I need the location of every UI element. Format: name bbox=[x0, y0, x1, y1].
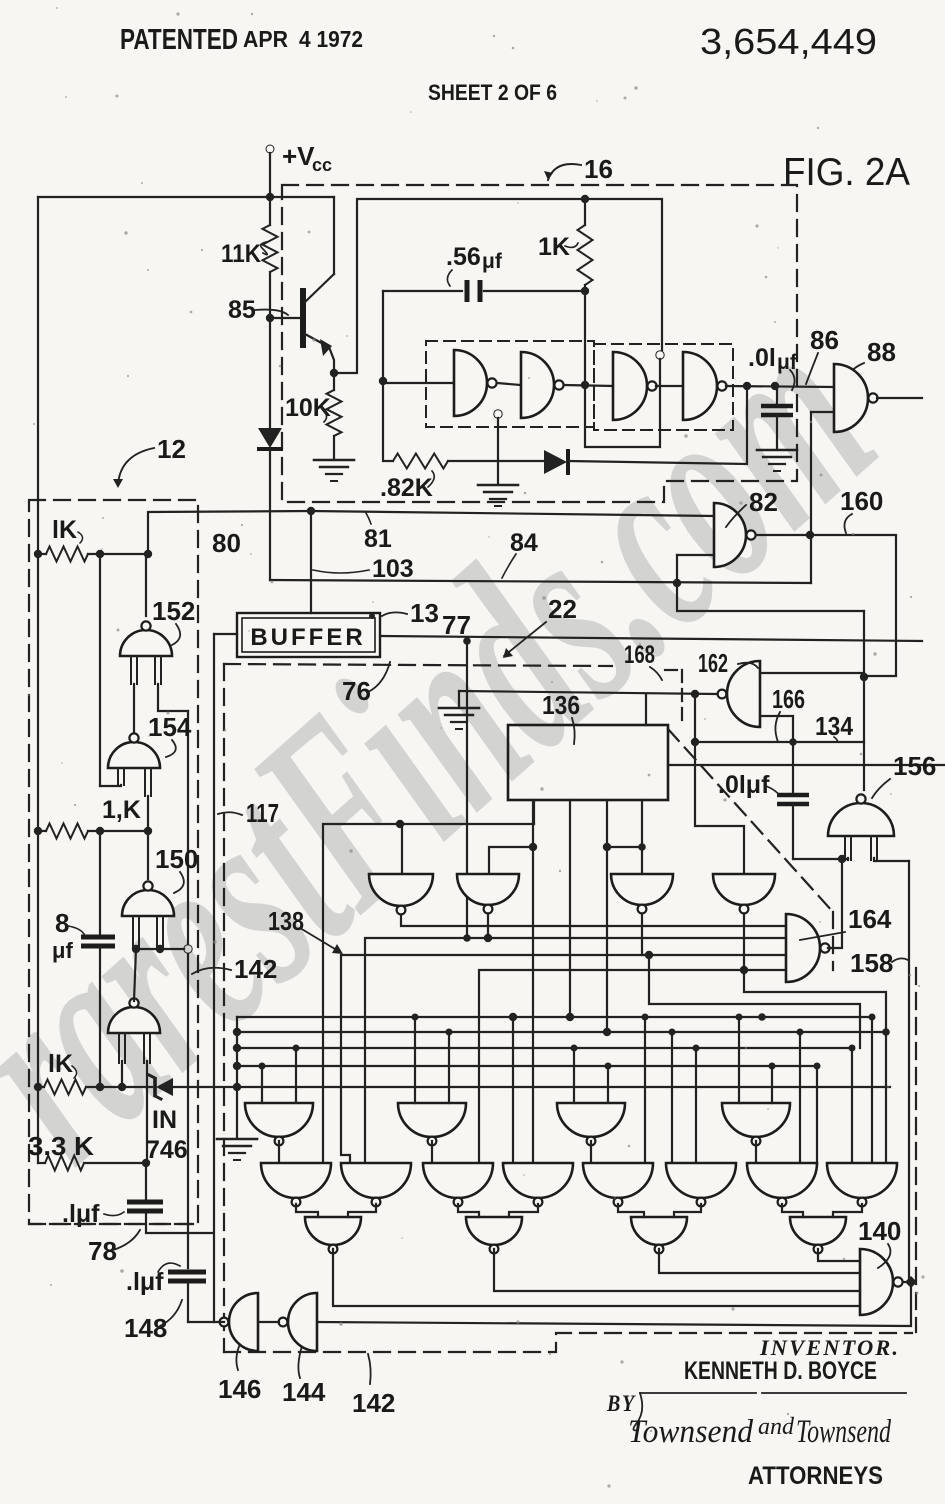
wire: 138b out bbox=[488, 915, 786, 938]
wire: 164 out bbox=[828, 859, 842, 948]
wire: buffer input drop x214 bbox=[214, 633, 237, 635]
wire B5-C3 bbox=[618, 1204, 644, 1217]
svg-text:+V: +V bbox=[282, 141, 315, 171]
wire 146-144 bbox=[258, 1321, 279, 1323]
wire: 138c out bbox=[642, 915, 786, 955]
node 1K a mid bbox=[96, 550, 104, 558]
node A1b bbox=[293, 1045, 300, 1052]
wire A4 out bbox=[755, 1141, 757, 1163]
wire C3 out bbox=[659, 1249, 860, 1273]
bus 1048 bbox=[237, 1047, 852, 1049]
node 150 leg a bbox=[132, 945, 140, 953]
zener diode IN746 bbox=[153, 1078, 157, 1096]
node st2 bbox=[603, 1028, 611, 1036]
wire: osc node down bbox=[585, 291, 660, 447]
wire B4-C2 bbox=[509, 1204, 538, 1217]
node 847 jog end bbox=[638, 843, 646, 851]
open input below g1/g2 bbox=[494, 410, 502, 418]
dashed box 22 right bbox=[915, 968, 917, 1332]
svg-text:FIG. 2A: FIG. 2A bbox=[783, 151, 910, 194]
nand gate 154 bbox=[108, 742, 160, 768]
node 1K c leg bbox=[118, 1083, 126, 1091]
buffer box bbox=[237, 613, 380, 657]
nand gate B6 bbox=[666, 1163, 736, 1198]
wire: 154 left leg bbox=[100, 785, 121, 786]
svg-text:156: 156 bbox=[893, 751, 936, 781]
node 1K c mid bbox=[96, 1083, 104, 1091]
nand gate A1 bbox=[245, 1103, 313, 1137]
resistor 1K top bbox=[578, 225, 593, 285]
wire: block out 2b down bbox=[606, 847, 608, 1032]
nand gate B3 bbox=[423, 1163, 493, 1198]
wire: 88 input 2 bbox=[811, 411, 834, 413]
wire A1 out bbox=[278, 1141, 280, 1163]
svg-text:117: 117 bbox=[246, 798, 279, 828]
wire: buffer drop bbox=[310, 511, 312, 613]
node x793-742 bbox=[789, 738, 797, 746]
wire B8-C4 bbox=[833, 1204, 862, 1217]
nand gate C1 bbox=[305, 1217, 361, 1245]
nand gate B1 bbox=[261, 1163, 331, 1198]
wire: 152 bubble up bbox=[145, 554, 147, 616]
dashed box 12 bbox=[29, 500, 198, 1224]
wire: g2-g3 bbox=[564, 385, 613, 386]
node: out junction 2 bbox=[771, 382, 779, 390]
capacitor .1uf (148) bbox=[168, 1270, 206, 1275]
wire C4 out bbox=[818, 1249, 860, 1261]
dashed box 22 right upper bbox=[832, 912, 834, 970]
wire A3 out bbox=[590, 1141, 592, 1163]
wire 146 out bbox=[188, 1321, 224, 1323]
svg-text:148: 148 bbox=[124, 1313, 167, 1343]
nand gate 138c bbox=[611, 874, 673, 905]
ground near 136 bbox=[458, 691, 460, 707]
wire: buffer-array drop bbox=[466, 641, 468, 938]
svg-text:BUFFER: BUFFER bbox=[250, 624, 365, 651]
wire: 84 line bbox=[270, 580, 811, 583]
wire C1 out bbox=[333, 1249, 860, 1306]
wire: v852 bbox=[851, 1048, 853, 1163]
resistor .82K bbox=[393, 454, 448, 469]
svg-text:lK: lK bbox=[48, 1050, 73, 1078]
ground under 10K bbox=[314, 459, 354, 462]
resistor 1K (c) bbox=[44, 1080, 86, 1095]
nand gate 156 bbox=[828, 803, 894, 836]
transistor Q85 bbox=[270, 317, 301, 319]
svg-text:82: 82 bbox=[749, 487, 778, 517]
wire: emitter to feedback rail bbox=[334, 199, 662, 373]
wire: 82 input 1 (from box 12) bbox=[311, 511, 714, 516]
node A3a bbox=[571, 1045, 578, 1052]
svg-text:.0l: .0l bbox=[748, 344, 776, 372]
capacitor .01uf a bbox=[776, 387, 778, 404]
block 136 bbox=[508, 725, 668, 800]
svg-text:152: 152 bbox=[152, 596, 195, 626]
node A1a bbox=[259, 1063, 266, 1070]
node bus c bbox=[233, 1044, 241, 1052]
resistor 3.3K bbox=[45, 1156, 84, 1171]
wire: x100 drop bbox=[99, 554, 101, 786]
node bus d bbox=[233, 1062, 241, 1070]
nand gate 138d bbox=[713, 874, 775, 905]
wire: y970 left bbox=[479, 970, 744, 1163]
dashed inner box gates 3-4 bbox=[594, 344, 733, 430]
node v852 bbox=[849, 1045, 856, 1052]
wire: 162out to block bbox=[645, 694, 647, 725]
svg-text:138: 138 bbox=[268, 906, 304, 936]
node: rail-1K junction bbox=[581, 195, 589, 203]
wire: x694 down bbox=[695, 694, 744, 874]
capacitor .56uf bbox=[383, 290, 462, 292]
wire: .82K to diode bbox=[448, 460, 544, 462]
wire: 1087 row right bbox=[236, 1017, 238, 1087]
wire: g1 in right bbox=[401, 824, 403, 874]
wire: cap branch down bbox=[382, 291, 384, 381]
nand gate 138a bbox=[369, 874, 433, 906]
svg-text:cc: cc bbox=[312, 155, 332, 175]
svg-text:APR: APR bbox=[243, 26, 288, 52]
dashed box12 bottom bbox=[29, 1223, 193, 1225]
nand gate B8 bbox=[827, 1163, 897, 1198]
node: g2 out junction bbox=[581, 381, 589, 389]
svg-text:KENNETH D. BOYCE: KENNETH D. BOYCE bbox=[684, 1357, 877, 1385]
wire: 134 line a bbox=[695, 741, 864, 743]
wire: block out 1 bbox=[532, 800, 534, 1163]
nand gate A (osc 1) bbox=[454, 350, 487, 416]
node v872 bbox=[869, 1014, 876, 1021]
wire: g1-g2 bbox=[497, 383, 521, 385]
svg-text:86: 86 bbox=[810, 325, 839, 355]
dashed inner box gates 1-2 bbox=[426, 341, 594, 427]
node v645 bbox=[642, 1014, 649, 1021]
wire: 152 left leg bbox=[133, 684, 135, 736]
node array drop top bbox=[463, 637, 471, 645]
node b1 bbox=[529, 843, 537, 851]
bus 1066 bbox=[237, 1065, 817, 1067]
wire: v679 bbox=[695, 1048, 697, 1163]
svg-text:88: 88 bbox=[867, 337, 896, 367]
wire: g3-g4 bbox=[656, 385, 683, 387]
svg-text:142: 142 bbox=[234, 954, 277, 984]
svg-text:22: 22 bbox=[548, 594, 577, 624]
wire: 160 feedback bbox=[864, 535, 896, 676]
node v679 bbox=[693, 1045, 700, 1052]
svg-text:80: 80 bbox=[212, 528, 241, 558]
wire: buffer output bbox=[380, 636, 922, 641]
svg-text:85: 85 bbox=[228, 296, 256, 324]
wire: 162 out line bbox=[459, 691, 716, 694]
wire: 156 right leg bbox=[874, 858, 909, 861]
wire A3 in bbox=[573, 1048, 575, 1103]
svg-text:84: 84 bbox=[510, 529, 538, 557]
wire: 138d out bbox=[744, 915, 786, 970]
node: gate1 input bbox=[379, 377, 387, 385]
wire: 140 output loop bbox=[903, 1281, 909, 1283]
wire: 82 input 2 bbox=[677, 554, 714, 556]
wire: 156 left leg bbox=[847, 858, 849, 860]
wire A2 in bbox=[414, 1017, 416, 1103]
node bus1032 right bbox=[882, 1028, 890, 1036]
node A4b bbox=[769, 1063, 776, 1070]
wire: 152 out to buffer line bbox=[148, 511, 311, 554]
node 1K b right bbox=[144, 827, 152, 835]
wire: .82K feedback bbox=[383, 381, 393, 461]
nand gate D (osc 4) bbox=[683, 352, 717, 420]
scan speckles bbox=[308, 231, 311, 234]
nand gate C2 bbox=[466, 1217, 522, 1245]
wire B3-C2 bbox=[458, 1204, 479, 1217]
ground bus bbox=[236, 1087, 238, 1138]
capacitor .1uf (78) bbox=[145, 1163, 147, 1200]
svg-text:142: 142 bbox=[352, 1388, 395, 1418]
svg-text:166: 166 bbox=[772, 684, 805, 714]
node v672 bbox=[669, 1029, 676, 1036]
wire: 611 to 156 bbox=[863, 611, 865, 790]
svg-text:81: 81 bbox=[364, 525, 392, 553]
capacitor .01uf b bbox=[792, 742, 794, 793]
node 3.3K right bbox=[142, 1159, 150, 1167]
svg-text:SHEET 2 OF 6: SHEET 2 OF 6 bbox=[428, 80, 557, 105]
node 1K c left bbox=[34, 1083, 42, 1091]
node 1087 right bbox=[233, 1083, 241, 1091]
svg-text:168: 168 bbox=[624, 641, 655, 669]
nand gate 164 bbox=[786, 914, 820, 982]
node 1K b left bbox=[34, 827, 42, 835]
node: 82 out junction bbox=[806, 531, 814, 539]
svg-text:103: 103 bbox=[372, 555, 414, 583]
wire: y938 left bbox=[365, 938, 488, 1163]
node: 84-677 junction bbox=[673, 579, 681, 587]
wire A4 in bbox=[738, 1017, 740, 1103]
wire: 150 out row bbox=[136, 948, 184, 950]
wire: into gate 1 bbox=[383, 382, 454, 384]
node 938 bbox=[484, 934, 492, 942]
wire: v672 bbox=[671, 1032, 673, 1163]
wire: 134 line b bbox=[668, 764, 945, 766]
node: Vcc junction bbox=[266, 193, 274, 201]
nand gate 140 bbox=[860, 1249, 893, 1315]
svg-text:13: 13 bbox=[410, 598, 439, 628]
nand gate C3 bbox=[631, 1217, 687, 1245]
dashed box 22 left bbox=[223, 664, 225, 1352]
wire: 162 in1 bbox=[760, 672, 864, 674]
svg-text:160: 160 bbox=[840, 486, 883, 516]
svg-text:77: 77 bbox=[442, 610, 471, 640]
svg-text:3,654,449: 3,654,449 bbox=[700, 21, 877, 62]
node 970 bbox=[740, 966, 748, 974]
bus 1087 bbox=[237, 1086, 890, 1088]
svg-text:Townsend: Townsend bbox=[628, 1414, 753, 1450]
node: buffer tap bbox=[307, 507, 315, 515]
svg-text:158: 158 bbox=[850, 948, 893, 978]
+Vcc terminal bbox=[266, 145, 274, 153]
svg-text:lK: lK bbox=[52, 516, 77, 544]
wire A2 out bbox=[431, 1141, 433, 1163]
svg-text:4 1972: 4 1972 bbox=[299, 26, 363, 52]
wire: 82 output bbox=[756, 534, 894, 536]
node 140 out diamond bbox=[905, 1276, 917, 1288]
dashed box 22 bottom bbox=[224, 1333, 912, 1352]
resistor 1K (b) bbox=[46, 824, 88, 839]
wire: 133 left leg bbox=[121, 1061, 123, 1087]
bus 1017 bbox=[237, 1016, 872, 1018]
diode CR2 bbox=[544, 450, 567, 474]
svg-text:146: 146 bbox=[218, 1374, 261, 1404]
signature line bbox=[640, 1392, 756, 1394]
svg-text:144: 144 bbox=[282, 1377, 326, 1407]
resistor 1K (a) bbox=[46, 547, 88, 562]
nand gate C4 bbox=[790, 1217, 846, 1245]
wire: block out 3 bbox=[569, 800, 571, 1017]
svg-text:11K: 11K bbox=[221, 240, 261, 268]
wire: x811 down bbox=[810, 535, 812, 583]
wire: 162 in2 bbox=[760, 716, 793, 742]
node v817 bbox=[814, 1063, 821, 1070]
dashed box 22 jog bbox=[665, 669, 682, 671]
node buffer top bbox=[369, 613, 375, 619]
svg-text:Townsend: Townsend bbox=[796, 1414, 891, 1450]
svg-text:.0lμf: .0lμf bbox=[718, 771, 770, 799]
svg-text:μf: μf bbox=[482, 250, 503, 273]
node A3b bbox=[605, 1063, 612, 1070]
node: out junction 1 bbox=[743, 382, 751, 390]
node b2 bbox=[603, 843, 611, 851]
staircase G4-B8 bbox=[744, 970, 886, 1163]
open node above g4 bbox=[656, 351, 664, 359]
nand gate 162 (left facing) bbox=[727, 661, 760, 727]
node bus b bbox=[233, 1028, 241, 1036]
svg-text:PATENTED: PATENTED bbox=[120, 24, 238, 56]
capacitor 8uf bbox=[99, 831, 101, 936]
svg-text:746: 746 bbox=[146, 1136, 188, 1164]
wire: y824 from block bbox=[533, 801, 535, 824]
wire C2 out bbox=[494, 1249, 860, 1291]
wire: 152 right leg bbox=[158, 684, 188, 711]
wire B1-C1 bbox=[296, 1204, 318, 1217]
nand gate B (osc 2) bbox=[521, 352, 554, 418]
node: emitter junction bbox=[330, 369, 338, 377]
svg-text:IN: IN bbox=[152, 1106, 177, 1134]
svg-text:ATTORNEYS: ATTORNEYS bbox=[748, 1462, 883, 1490]
svg-text:.56: .56 bbox=[446, 243, 481, 271]
wire: 847 jog bbox=[489, 847, 533, 874]
nand gate 144 (left facing) bbox=[288, 1293, 317, 1351]
dashed box 22 top bbox=[224, 664, 612, 666]
wire: 138a out bbox=[401, 915, 786, 926]
nand gate C (osc 3) bbox=[613, 352, 647, 420]
wire: 154 right leg bbox=[147, 796, 149, 879]
nand gate A2 bbox=[398, 1103, 466, 1137]
svg-text:μf: μf bbox=[52, 938, 73, 963]
wire: left rail x38 bbox=[37, 197, 39, 1163]
svg-text:162: 162 bbox=[698, 648, 728, 678]
wire: v513 bbox=[512, 1017, 514, 1163]
open node on 142 line bbox=[184, 945, 192, 953]
svg-text:8: 8 bbox=[55, 908, 69, 938]
node v513 bbox=[509, 1013, 517, 1021]
svg-text:10K: 10K bbox=[285, 394, 331, 422]
node 162 out bbox=[691, 690, 699, 698]
svg-text:BY: BY bbox=[606, 1391, 636, 1416]
wire: block out 2 bbox=[607, 800, 642, 847]
nand gate 152 bbox=[120, 630, 172, 656]
nand gate 138b bbox=[457, 874, 519, 905]
nand gate 150 bbox=[122, 890, 174, 916]
staircase G3-bus1048 bbox=[649, 955, 860, 1048]
wire: v817 bbox=[816, 1066, 818, 1163]
nand gate B2 bbox=[341, 1163, 411, 1198]
wire: v872 bbox=[871, 1017, 873, 1163]
node A2a bbox=[412, 1014, 419, 1021]
wire B7-C4 bbox=[782, 1204, 803, 1217]
wire: 164out-156 rail bbox=[793, 858, 848, 860]
node A2b bbox=[446, 1029, 453, 1036]
wire: y824 line bbox=[323, 824, 534, 1163]
bus 1032 bbox=[237, 1031, 886, 1033]
wire: v800 bbox=[799, 1032, 801, 1163]
wire: 158 drop bbox=[908, 861, 910, 1282]
wire: g4 out bbox=[726, 386, 834, 387]
node st1 bbox=[566, 1013, 574, 1021]
nand gate 133 (unlabeled) bbox=[108, 1007, 160, 1033]
wire: 133 right leg bbox=[146, 1061, 148, 1163]
node 1K a left bbox=[34, 550, 42, 558]
node array drop bottom bbox=[463, 934, 471, 942]
dashed box 16 bbox=[282, 185, 797, 502]
node: 864-677 bbox=[860, 673, 868, 681]
node 164 rail bbox=[838, 855, 846, 863]
svg-text:μf: μf bbox=[777, 351, 798, 374]
node 1K a right bbox=[144, 550, 152, 558]
svg-text:.82K: .82K bbox=[380, 474, 433, 502]
wire: 150 legs down bbox=[135, 946, 137, 949]
wire B2-C1 bbox=[348, 1204, 376, 1217]
wire: 88 output bbox=[877, 397, 922, 399]
svg-text:150: 150 bbox=[155, 844, 198, 874]
wire A1 in bbox=[261, 1066, 263, 1103]
node 955 bbox=[645, 951, 653, 959]
node: cap-1K junction bbox=[581, 287, 589, 295]
nand gate B5 bbox=[583, 1163, 653, 1198]
dashed box 22 diagonal bbox=[668, 729, 833, 912]
svg-text:12: 12 bbox=[157, 434, 186, 464]
svg-text:136: 136 bbox=[542, 690, 580, 720]
node: base junction bbox=[266, 314, 274, 322]
svg-text:1,K: 1,K bbox=[102, 796, 141, 824]
svg-text:and: and bbox=[758, 1414, 795, 1440]
node 824 bbox=[396, 820, 404, 828]
nand gate A3 bbox=[557, 1103, 625, 1137]
node 1K b mid bbox=[96, 827, 104, 835]
wire: 150 to 133 bbox=[134, 949, 136, 1001]
svg-text:164: 164 bbox=[848, 904, 892, 934]
svg-text:140: 140 bbox=[858, 1216, 901, 1246]
wire: top rail bbox=[38, 196, 334, 198]
svg-text:1K: 1K bbox=[538, 233, 570, 261]
wire: 142 line x188 bbox=[187, 711, 189, 944]
resistor 11K bbox=[263, 225, 278, 272]
wire: v645 bbox=[644, 1017, 646, 1163]
resistor 10K bbox=[333, 373, 335, 390]
node 742 bbox=[691, 738, 699, 746]
ground inner bbox=[478, 484, 518, 487]
nand gate 146 (left facing) bbox=[229, 1293, 258, 1351]
ground under .01uf a bbox=[757, 449, 797, 452]
svg-text:3.3 K: 3.3 K bbox=[28, 1131, 94, 1161]
nand gate 88 bbox=[834, 364, 868, 432]
node 150 leg b bbox=[156, 945, 164, 953]
svg-text:154: 154 bbox=[148, 712, 192, 742]
